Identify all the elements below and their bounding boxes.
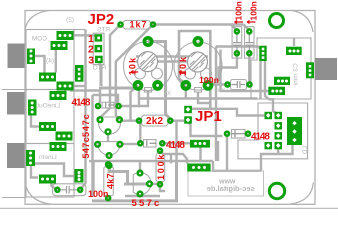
svg-text:LineIn: LineIn [39, 154, 57, 161]
wire vertical left of Q2 [91, 95, 93, 162]
wire D2 to pad block [162, 142, 193, 144]
svg-text:100n: 100n [248, 1, 258, 20]
wire pad B down [55, 49, 57, 73]
transistor Q3 outline [133, 172, 151, 194]
transistor Q3 pad E [138, 171, 143, 176]
connector JP1 body outline [238, 103, 308, 159]
connector X2 R5 holes [271, 90, 274, 93]
wire D1 to pot P1 pad [119, 87, 139, 106]
pad block I [39, 175, 56, 184]
board corner arc bottom-left [25, 182, 51, 204]
jack X4 pad block [26, 150, 35, 166]
resistor R4 pad bottom [106, 196, 110, 200]
wire C2 bottom to C3 right pad [248, 53, 250, 84]
connector JP1 pin 1 [184, 106, 192, 113]
svg-text:547c: 547c [81, 113, 91, 137]
diode D2 pad left [138, 141, 142, 145]
capacitor C3 body [231, 80, 247, 90]
svg-text:COM: COM [32, 36, 47, 43]
wire pad D right [74, 85, 86, 87]
wire C1 bottom to pot P2 [212, 53, 237, 85]
pad block E holes [52, 94, 55, 97]
connector X2 pad block R4 [274, 77, 290, 85]
wire 100k top to lower block [160, 151, 187, 164]
capacitor C2 body [245, 27, 255, 58]
via pad below Q2 [107, 163, 112, 168]
svg-text:100k: 100k [156, 153, 166, 180]
wire Q3 emitter up to bus [139, 161, 141, 170]
pad block H holes [52, 145, 55, 148]
pad S2 [275, 112, 283, 119]
diode D1 pad right [117, 104, 121, 108]
svg-text:100n: 100n [233, 1, 243, 20]
potentiometer P2 pad left [182, 82, 189, 89]
wire pot P1 wiper tab down [139, 90, 148, 106]
svg-text:(4): (4) [46, 58, 54, 65]
diode D3 pad right [246, 132, 250, 136]
jack X3 flange line [2, 89, 26, 91]
pad block D holes [59, 85, 62, 88]
transistor Q2 pad E [95, 142, 100, 147]
resistor R3 pad bottom [158, 182, 162, 186]
wire X2 R2 up [293, 39, 295, 47]
potentiometer P2 body [174, 42, 222, 90]
connector JP1 big pad block [287, 117, 302, 145]
pad block W holes [78, 68, 81, 71]
capacitor C1 pad bottom [235, 51, 239, 55]
potentiometer P1 pad right [154, 82, 161, 89]
polarity mark P1 [131, 71, 138, 74]
pad S3 [275, 122, 283, 129]
wire R1 pad2 to caps C1 C2 [153, 23, 244, 25]
connector X2 R4 holes [277, 80, 280, 83]
capacitor C4 plates [60, 186, 77, 194]
pad S5 [265, 142, 273, 149]
svg-text:C3 mini: C3 mini [293, 63, 300, 85]
connector JP2 pin 2 [95, 45, 103, 52]
board corner arc top-left [25, 11, 49, 30]
resistor R1 pad 2 [151, 23, 155, 27]
diode D1 cathode mark [106, 103, 114, 108]
svg-text:3: 3 [88, 54, 94, 66]
diode D1 pad left [96, 104, 100, 108]
pad block A holes [59, 34, 62, 37]
svg-text:sec-digital.de: sec-digital.de [207, 184, 255, 193]
resistor R1 pad 1 [119, 23, 123, 27]
connector X2 pad block R2 [286, 47, 302, 55]
resistor R4 4k7 body [104, 167, 114, 196]
connector X2 pad block R1 [259, 46, 266, 61]
polarity mark C1 [235, 21, 244, 24]
wire branch to C2 top [244, 25, 250, 31]
pad block F holes [41, 125, 44, 128]
wire Q2 collector to D2 [122, 143, 138, 145]
transistor Q2 outline [98, 142, 120, 156]
potentiometer P2 bottom tab [195, 88, 202, 93]
connector X2 R1 holes [262, 48, 265, 51]
svg-text:100n: 100n [88, 189, 109, 199]
wire pad block down to bus [199, 148, 201, 162]
potentiometer P1 body [124, 42, 173, 91]
svg-text:547c: 547c [81, 137, 91, 159]
board corner arc bottom-right [290, 183, 313, 205]
potentiometer P2 right dimple [201, 68, 212, 79]
pad block C [39, 73, 56, 82]
potentiometer P2 left dimple [185, 68, 196, 79]
pad block I holes [41, 178, 44, 181]
capacitor C3 pad right [248, 83, 252, 87]
pad block W vertical [75, 65, 84, 82]
wire long horizontal upper JP1 box [139, 99, 278, 115]
pad block B [51, 41, 68, 50]
potentiometer P2 screw [188, 52, 208, 72]
wire jack X1 to pads [35, 56, 45, 73]
jack X4 body outline [26, 144, 74, 198]
capacitor C3 pad left [226, 83, 230, 87]
wire pot P1 wiper right [148, 42, 170, 121]
potentiometer P1 bottom tab [145, 88, 152, 93]
pad S4 [275, 132, 283, 139]
pad block bottom JP [190, 140, 210, 148]
resistor R2 pad left [137, 119, 141, 123]
wire JP2 pin3 down to pot [99, 63, 139, 88]
pad S1 [265, 112, 273, 119]
connector X2 R2 holes [289, 50, 292, 53]
wire pad A to JP2 [73, 34, 95, 36]
capacitor C3 plates [232, 81, 246, 88]
wire pad D to E [50, 90, 65, 96]
wire jack X4 to V pad [35, 164, 75, 177]
pad block F [39, 122, 56, 131]
wire pad I to C4 [52, 182, 58, 190]
potentiometer P2 wiper pad [194, 38, 201, 45]
wire 2k2 right pad to JP1 pin2 [170, 119, 184, 121]
svg-text:4148: 4148 [251, 131, 270, 142]
svg-text:RTO: RTO [93, 65, 107, 72]
potentiometer P1 right dimple [152, 68, 163, 79]
connector X2 body outline [251, 38, 311, 99]
transistor Q3 pad B [147, 181, 152, 186]
wire pot P1 left pad down [131, 85, 139, 120]
wire jack to D1 [70, 91, 100, 105]
wire D3 pad down [226, 136, 228, 171]
pad block V holes [78, 171, 81, 174]
wire ground bus left [91, 160, 94, 197]
jack X4 pad holes [29, 152, 32, 155]
capacitor C4 pad left [55, 188, 59, 192]
wire Q1 base down [107, 134, 109, 141]
polarity mark P2 [179, 71, 185, 74]
wire X2 R1 pads down [261, 61, 270, 99]
diode D2 body [144, 140, 157, 147]
diode D2 pad right [160, 141, 164, 145]
pad block A [57, 31, 74, 40]
svg-text:4k7: 4k7 [106, 173, 116, 189]
wire jack X3 link [31, 116, 39, 127]
transistor Q1 pad B [106, 129, 111, 134]
text keepout box [188, 171, 264, 196]
resistor R2 pad right [168, 119, 172, 123]
resistor R3 100k body [156, 154, 165, 182]
connector X2 pad block R3 [306, 62, 314, 78]
svg-text:JP2: JP2 [88, 11, 115, 28]
wire Q3 collector bottom [125, 194, 160, 196]
wire 4k7 bottom [107, 198, 109, 201]
connector X2 tab [315, 58, 337, 80]
jack X3 tab [7, 92, 25, 115]
capacitor C2 pad top [247, 29, 251, 33]
capacitor C2 pad bottom [247, 51, 251, 55]
jack X1 body outline [26, 30, 74, 90]
capacitor C1 plates [233, 34, 241, 51]
jack X1 top line extension [74, 29, 86, 31]
wire JP1 pin2 to D3 [188, 122, 223, 136]
jack X4 flange line [2, 197, 26, 199]
capacitor C1 body [232, 27, 242, 58]
potentiometer P1 pad left [135, 82, 142, 89]
wire staircase around pot P2 top [179, 31, 210, 109]
wire 2k2 left to Q1 collector [122, 119, 140, 121]
pad block G [56, 132, 73, 141]
pad block G holes [58, 135, 61, 138]
connector JP2 body outline [93, 33, 104, 64]
wire vertical right of block [217, 141, 219, 161]
jack X3 pad block [28, 100, 37, 116]
wire from R1 pad1 to Q1 [100, 25, 120, 118]
svg-text:4148: 4148 [166, 140, 185, 151]
svg-text:1k7: 1k7 [130, 20, 148, 30]
jack X3 pad holes [31, 102, 34, 105]
svg-text:557c: 557c [132, 198, 162, 209]
transistor Q2 pad B [107, 153, 112, 158]
pad block lower holes [192, 166, 195, 169]
potentiometer P2 pad right [205, 82, 212, 89]
jack X1 pad block [27, 49, 35, 65]
frame line bottom [0, 207, 338, 209]
svg-text:LineOut: LineOut [37, 103, 60, 110]
wire pot P2 left pad down [185, 85, 187, 98]
potentiometer P1 left dimple [135, 68, 146, 79]
wire JP1 pin1 to S1 pad [188, 109, 265, 116]
jack X4 tab [7, 143, 25, 168]
wire between pots upper [136, 55, 208, 57]
jack X3 body outline [26, 90, 74, 144]
wire to X2 lower pads [221, 50, 269, 92]
JP1 pin pads [184, 106, 192, 124]
wire bottom horizontal thick [92, 161, 177, 201]
JP2 pin pads [95, 34, 103, 63]
transistor Q3 pad C [138, 192, 143, 197]
svg-text:100n: 100n [199, 75, 219, 85]
resistor R2 2k2 body [142, 115, 169, 126]
connector JP2 pin 1 [95, 34, 103, 41]
wire bottom bus [89, 145, 293, 171]
jack X1 pad holes [30, 50, 33, 53]
transistor Q1 pad E [98, 117, 103, 122]
mounting hole bottom right [269, 183, 284, 198]
svg-text:JP1: JP1 [195, 108, 222, 125]
wire 2k2 left pad to D2 [139, 121, 140, 141]
board edge [25, 11, 315, 205]
pad block V vertical [75, 169, 84, 183]
svg-text:LD: LD [302, 146, 309, 155]
wire branch to C1 top [231, 25, 237, 31]
pad block bottom JP holes [194, 142, 197, 145]
svg-text:4148: 4148 [72, 98, 91, 109]
connector JP2 pin 3 [95, 56, 103, 63]
wire from R1 pad2 down left side [116, 25, 153, 120]
wire C3 left pad to pot P2 [210, 83, 228, 85]
pad block C holes [41, 76, 44, 79]
diode D1 body [102, 102, 114, 108]
mounting hole top right [270, 14, 284, 28]
wire JP1 pin2 down to bus [175, 121, 177, 161]
JP1 square pads cluster [265, 112, 283, 149]
wire JP1 pin1 to connector X2 [188, 47, 263, 162]
board corner arc top-right [292, 11, 313, 33]
svg-text:(2): (2) [66, 17, 74, 24]
capacitor C4 pad right [78, 188, 82, 192]
resistor R3 pad top [158, 149, 162, 153]
wire 100k bottom down [160, 184, 165, 191]
potentiometer P1 screw [138, 52, 158, 72]
transistor Q1 outline [99, 117, 121, 134]
pad block lower [187, 164, 210, 172]
pad block E [50, 91, 67, 100]
wire pot P2 wiper tab down [198, 92, 210, 103]
pad S6 [275, 142, 283, 149]
wire Q2 via to Q3 [109, 166, 146, 185]
connector X2 R3 holes [309, 65, 312, 68]
transistor Q1 pad C [117, 117, 122, 122]
pad block B holes [53, 44, 56, 47]
transistor Q2 pad C [118, 142, 123, 147]
wire between pots lower [136, 60, 192, 62]
svg-text:2k2: 2k2 [146, 116, 164, 127]
wire Q3 base to 100k bottom [152, 183, 158, 185]
resistor R4 pad top [106, 162, 110, 166]
svg-text:XT: XT [163, 91, 171, 97]
connector X2 pad block R5 [268, 87, 285, 95]
polarity mark C2 [247, 21, 256, 24]
wire vertical left of Q1 Q2 [80, 30, 85, 190]
connector JP1 big pad holes [292, 121, 296, 142]
diode D3 body [232, 130, 246, 139]
resistor R1 1k7 body [123, 20, 151, 29]
wire jack X4 link [31, 166, 38, 178]
capacitor C1 pad top [235, 29, 239, 33]
pad block D [57, 82, 74, 91]
svg-text:XH: XH [217, 88, 225, 94]
jack X1 tab [8, 44, 25, 69]
capacitor C4 body [53, 184, 86, 196]
connector JP1 pin 2 [184, 116, 192, 123]
pad block H [50, 142, 67, 151]
diode D3 pad left [225, 132, 229, 136]
potentiometer P1 wiper pad [144, 38, 151, 45]
diode D3 cathode mark [232, 130, 246, 137]
diode D2 cathode mark [147, 140, 156, 146]
wire to D1 right pad [93, 95, 119, 103]
capacitor C2 plates [245, 34, 253, 51]
